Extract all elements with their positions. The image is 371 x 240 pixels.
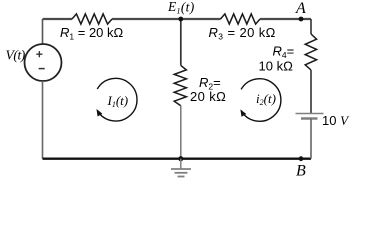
ground bar 1	[171, 168, 191, 170]
bottom junction dot at ground	[178, 156, 183, 161]
ground stub	[180, 159, 182, 169]
ground bar 2	[175, 172, 188, 174]
loop arrowhead I1	[97, 109, 103, 116]
battery positive plate (long)	[296, 113, 324, 115]
loop arrowhead i2	[240, 109, 246, 116]
svg-text:10 V: 10 V	[322, 113, 350, 128]
battery negative plate (short thick)	[301, 117, 318, 120]
wire middle branch upper	[180, 19, 182, 65]
wire top horizontal middle segment	[112, 18, 221, 20]
svg-text:i2(t): i2(t)	[256, 91, 276, 107]
wire right rail middle	[310, 70, 312, 114]
wire right rail lower	[310, 119, 312, 159]
wire bottom horizontal	[43, 157, 312, 159]
voltage source V(t)	[25, 44, 62, 81]
loop arc i2	[241, 79, 281, 122]
svg-text:V(t): V(t)	[6, 48, 26, 63]
svg-text:10 kΩ: 10 kΩ	[259, 59, 294, 74]
resistor R2	[174, 65, 186, 105]
ground bar 3	[178, 176, 185, 178]
resistor R4	[305, 34, 316, 70]
wire middle branch lower	[180, 106, 182, 159]
resistor R1	[72, 14, 112, 24]
wire left rail upper	[42, 19, 44, 44]
loop arc I1	[97, 78, 137, 121]
svg-text:I1(t): I1(t)	[107, 93, 129, 109]
svg-text:R3 = 20 kΩ: R3 = 20 kΩ	[209, 25, 276, 42]
svg-text:B: B	[296, 162, 306, 179]
node B junction dot	[299, 156, 304, 161]
wire left rail lower	[42, 81, 44, 159]
node E1 junction dot	[178, 17, 183, 22]
wire top horizontal right segment to corner	[260, 18, 311, 20]
svg-text:A: A	[295, 0, 306, 17]
svg-text:R4=: R4=	[273, 43, 295, 60]
svg-text:20 kΩ: 20 kΩ	[190, 89, 226, 104]
resistor R3	[221, 14, 261, 24]
wire top horizontal left segment	[43, 18, 73, 20]
svg-text:E1(t): E1(t)	[167, 0, 195, 15]
node A junction dot	[299, 17, 304, 22]
wire right rail upper	[310, 19, 312, 34]
svg-text:R1 = 20 kΩ: R1 = 20 kΩ	[60, 25, 124, 42]
